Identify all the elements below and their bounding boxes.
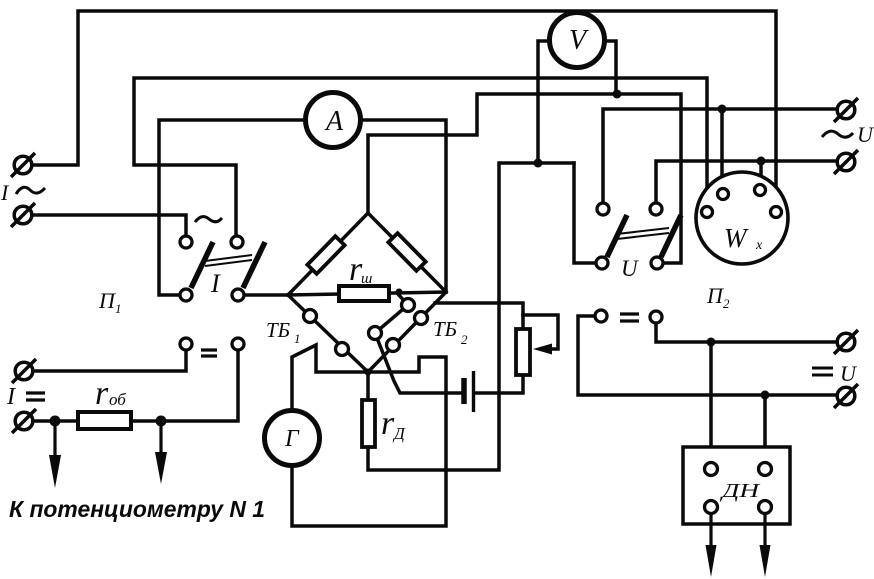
junction node: DN left tap on =U upper wire [707,338,716,347]
wattmeter Wx [696,172,788,264]
svg-text:П: П [98,288,116,313]
wire outer top loop from I~ upper terminal to Wx right terminal [32,11,776,206]
terminal I~ upper [11,153,35,177]
wire from junction dot down to Wx inner-right terminal [759,161,763,183]
wire П2 "=" right contact to =U upper terminal [656,323,837,342]
wire y163 right branch down to U-switch lower-left contact [574,163,596,263]
terminal I~ lower [11,203,35,227]
svg-text:об: об [109,390,126,409]
junction node: TB2 outer leg tap on bridge wire [396,289,403,296]
ammeter A [306,93,361,148]
terminal ~U upper [834,98,858,122]
svg-text:Д: Д [392,424,406,443]
wire U-switch upper-right contact up to ~U lower terminal [656,161,836,203]
thermocouple TB1 contact circles [266,310,349,356]
resistor left bridge arm [307,236,344,274]
potentiometer [516,329,552,375]
wire TB2 second leg zigzag to battery [375,293,461,393]
wire U-switch upper-left contact up to ~U upper terminal [603,109,837,203]
wire from junction dot down to DN box left terminal [709,342,713,463]
divider DN box [683,447,790,577]
svg-text:ТБ: ТБ [266,318,290,342]
svg-text:U: U [621,256,639,281]
wire galvanometer bottom loop up to jog and bottom junction [292,357,446,526]
label ~U [822,122,874,147]
svg-text:r: r [381,405,395,442]
arrows to potentiometer N1 [49,425,167,488]
voltmeter V [550,13,605,68]
svg-text:W: W [724,223,749,253]
svg-text:U: U [840,361,858,386]
svg-text:1: 1 [294,331,301,346]
svg-text:2: 2 [723,296,730,311]
svg-text:U: U [857,122,874,147]
thermocouple TB1 diagonal [288,295,368,372]
junction node: bridge bottom vertex [365,369,372,376]
wire bottom junction down to r_D top [366,372,370,400]
svg-text:I: I [6,384,16,410]
potentiometer wiper arrow wire [523,315,558,349]
resistor right bridge arm [388,233,425,271]
wire y163 net to r_D bottom [368,163,574,470]
battery [464,371,474,412]
label I= [6,384,45,410]
terminal I= lower [12,409,36,433]
wire battery right side to potentiometer bottom [476,375,523,393]
wire from junction dot down to Wx inner-left terminal [720,109,724,187]
wire top vertex to V net and U-switch lower-right contact [368,94,681,263]
terminal ~U lower [834,150,858,174]
svg-text:1: 1 [115,301,122,316]
svg-text:ДН: ДН [719,480,761,502]
terminal =U lower [834,384,858,408]
junction node: right arrow tap on r_ob wire [156,416,167,427]
wire П1 moving-right contact to bridge left vertex [245,293,288,297]
svg-text:ТБ: ТБ [433,317,457,341]
wire bridge right vertex branch to potentiometer top [435,303,523,329]
svg-text:V: V [569,25,589,56]
junction node: left arrow tap on r_ob wire [50,416,61,427]
label =U [812,361,858,386]
resistor r_ob [78,375,131,429]
wire П2 "=" left contact to =U lower terminal [578,316,837,395]
svg-text:2: 2 [461,332,468,347]
wire bridge arms and r_sh horizontal [288,213,446,295]
switch П1 [98,217,265,316]
wire I= lower terminal through r_ob to П1 lower-right contact [33,350,238,421]
thermocouple TB2 contact circles [369,299,469,352]
terminal =U upper [834,330,858,354]
wire from junction dot down to DN box right terminal [763,395,767,463]
svg-text:Г: Г [284,426,300,452]
svg-text:ш: ш [361,271,372,287]
junction node: V left lead on y163 wire [534,159,543,168]
junction node: Wx tap on ~U lower wire [757,157,766,166]
wire ammeter left lead to П1 moving-left contact [159,120,307,295]
wire y78 net: П1 upper-right contact up to top area and to Wx left terminal [134,78,707,236]
thermocouple TB2 diagonal [368,292,446,372]
junction node: V right lead on y94 wire [613,90,622,99]
label I~ [0,180,45,205]
switch П1 lower "=" contacts [180,338,244,356]
voltmeter V leads [538,41,616,163]
svg-text:A: A [324,106,344,137]
wire from I~ lower terminal to П1 upper-left contact [32,215,186,236]
wire I= upper terminal to П1 lower-left contact [33,350,186,371]
switch U of П2 [596,203,730,311]
wire ammeter right lead down to bridge right vertex [359,120,446,292]
wire galvanometer top lead to bottom junction [292,345,368,411]
galvanometer Г [265,411,320,466]
svg-text:x: x [755,238,763,253]
svg-text:r: r [95,375,109,412]
switch "=" of П2 [595,310,662,323]
svg-text:I: I [210,269,221,298]
resistor r_sh [339,251,389,301]
terminal I= upper [12,359,36,383]
svg-text:П: П [706,283,724,308]
junction node: DN right tap on =U lower wire [761,391,770,400]
svg-text:К потенциометру N 1: К потенциометру N 1 [9,496,265,522]
resistor r_D [362,400,406,447]
junction node: Wx tap on ~U upper wire [718,105,727,114]
